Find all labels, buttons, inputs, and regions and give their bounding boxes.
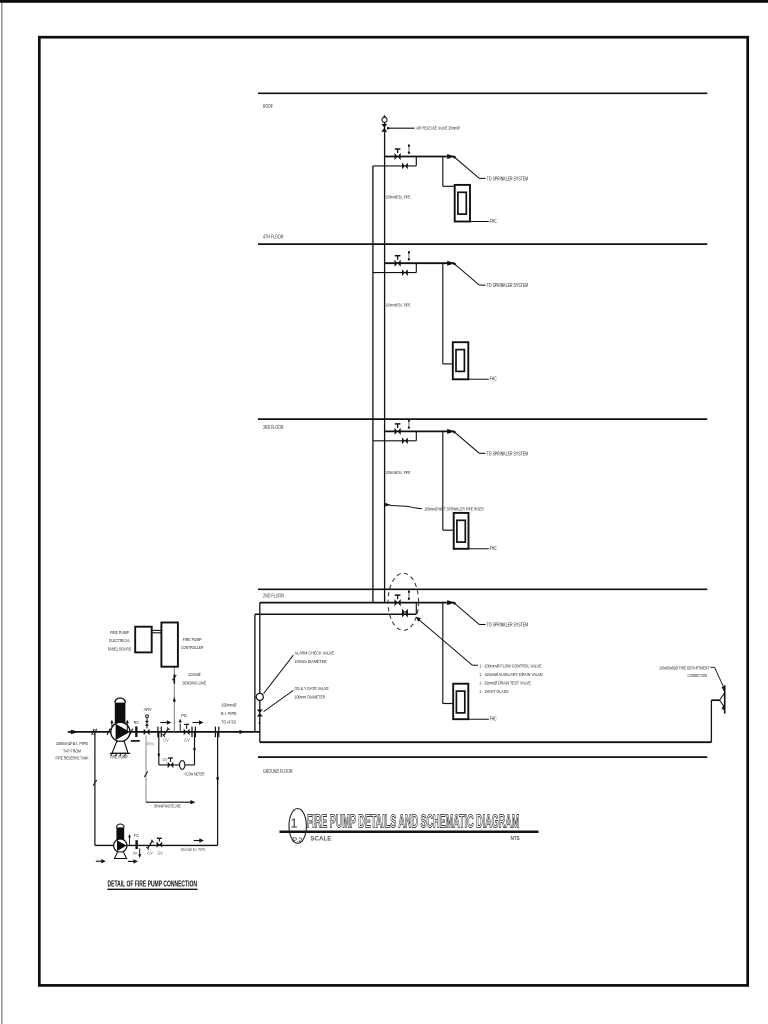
svg-text:CV: CV (147, 850, 153, 855)
svg-text:100mmØ B.I. PIPE: 100mmØ B.I. PIPE (386, 195, 411, 201)
gauge cock right of pump (126, 723, 128, 731)
wire: branch main pipe (385, 262, 455, 264)
wire: left drop from 2nd floor main (259, 603, 261, 743)
svg-text:4TH FLOOR: 4TH FLOOR (263, 234, 284, 240)
svg-text:1 - SIGHT GLASS: 1 - SIGHT GLASS (479, 689, 509, 695)
svg-text:TAP FROM: TAP FROM (63, 748, 81, 753)
svg-text:GV: GV (184, 737, 190, 742)
svg-text:1 - 32mmØ AUXILIARY DRAIN VALV: 1 - 32mmØ AUXILIARY DRAIN VALVE (479, 672, 543, 678)
wire: FHC feed drop (442, 263, 444, 364)
valve on air release stem (381, 124, 387, 128)
svg-text:CONTROLLER: CONTROLLER (181, 645, 204, 650)
svg-text:GV: GV (157, 850, 163, 855)
wire: FHC tag line (468, 718, 489, 720)
drawing number bubble (289, 809, 306, 844)
check valve CV on test line (148, 841, 153, 849)
svg-text:ELECTRICAL: ELECTRICAL (109, 638, 130, 643)
fire department siamese connection symbol (720, 693, 725, 700)
fire hose cabinet inner door (458, 192, 466, 214)
svg-text:CV: CV (163, 737, 169, 742)
union tick right of pump (130, 729, 133, 735)
auxiliary drain valve on bypass (402, 269, 405, 276)
wire: pump suction/discharge main (68, 731, 260, 733)
flow arrow at suction inlet (71, 730, 79, 735)
flange pair (191, 727, 193, 738)
OS&Y gate valve on riser drop (257, 710, 263, 714)
flow arrow on test line (194, 840, 200, 842)
OS&Y gate valve on branch (395, 428, 398, 435)
fire hose cabinet inner door (457, 520, 465, 542)
fire hose cabinet inner door (456, 350, 464, 372)
svg-text:DR: DR (133, 851, 138, 856)
svg-text:FIRE PUMP DETAILS AND SCHEMATI: FIRE PUMP DETAILS AND SCHEMATIC DIAGRAM (307, 811, 520, 832)
wire: bypass pipe (373, 440, 416, 442)
svg-text:150mmØ B.I. PIPE: 150mmØ B.I. PIPE (56, 741, 88, 746)
wire: panel to controller bus (152, 629, 162, 631)
svg-text:FHC: FHC (490, 219, 497, 225)
svg-text:FHC: FHC (490, 717, 497, 723)
OS&Y gate valve on branch (395, 260, 398, 267)
svg-text:DETAIL OF FIRE PUMP CONNECTION: DETAIL OF FIRE PUMP CONNECTION (108, 878, 198, 888)
fire hose cabinet inner door (456, 691, 464, 713)
svg-text:FHC: FHC (490, 546, 497, 552)
svg-text:RC: RC (134, 720, 140, 725)
wire: bypass connector (415, 157, 417, 166)
flow arrows under jockey pump (96, 860, 102, 862)
svg-text:1: 1 (290, 815, 297, 830)
auxiliary drain valve on bypass (402, 609, 405, 616)
svg-text:100mmØ B.I. PIPE: 100mmØ B.I. PIPE (386, 470, 411, 476)
test connection stub (408, 591, 410, 593)
wire: FHC tag line (469, 548, 489, 550)
wire: branch main pipe (385, 156, 455, 158)
svg-text:OS & Y GATE VALVE: OS & Y GATE VALVE (295, 686, 330, 692)
svg-text:SCALE: SCALE (310, 835, 331, 842)
wire: leader to sprinkler system (455, 264, 480, 285)
pipe union tick (92, 729, 95, 735)
svg-text:GROUND FLOOR: GROUND FLOOR (263, 769, 293, 775)
wire: left sprinkler riser pipe (372, 166, 374, 603)
wire: test line left drop (94, 732, 96, 846)
gate valve GV on main (184, 729, 187, 736)
wire: leader fire department connection (710, 666, 714, 668)
wire: leader to sprinkler system (455, 603, 480, 624)
flow arrow to sprinkler branch (447, 600, 455, 605)
union tick left of pump (107, 729, 110, 735)
wire: test line right rise (217, 732, 219, 846)
svg-text:P.2: P.2 (292, 837, 302, 844)
wire: bypass connector (415, 263, 417, 272)
test connection stub (408, 419, 410, 421)
wire: left drop from lower pipe (254, 614, 256, 732)
svg-text:TO SPRINKLER SYSTEM: TO SPRINKLER SYSTEM (487, 623, 528, 629)
scanned page top edge strip (0, 0, 768, 3)
floor line ROOF (258, 92, 707, 94)
svg-text:100mmØ B.I. PIPE: 100mmØ B.I. PIPE (386, 302, 411, 308)
wire: right 100mm wet riser pipe (384, 122, 386, 602)
svg-text:1 - 100mmØ FLOW CONTROL VALVE: 1 - 100mmØ FLOW CONTROL VALVE (479, 663, 542, 669)
wire: leader to valve list (416, 617, 421, 622)
wire: leader to sprinkler system (455, 432, 480, 453)
svg-text:100mm DIAMETER: 100mm DIAMETER (295, 694, 326, 700)
svg-text:PRV: PRV (147, 742, 155, 747)
svg-text:FC: FC (134, 833, 139, 838)
gate valve on flow meter loop (168, 762, 171, 768)
fire pump electrical panel board (135, 627, 152, 653)
svg-text:PG: PG (181, 713, 187, 718)
wire: branch main pipe (260, 602, 455, 604)
jockey pump base (114, 852, 126, 859)
detail bubble dashed ellipse (388, 573, 419, 630)
floor line 2ND FLOOR (258, 588, 707, 590)
wire: riser tag leader (385, 503, 390, 507)
wire: bypass pipe (373, 272, 416, 274)
flow control valve in detail bubble (402, 611, 405, 618)
wire: ground floor main pipe (260, 741, 712, 743)
floor line 4TH FLOOR (258, 243, 707, 245)
svg-text:FIRE RESERVE TANK: FIRE RESERVE TANK (56, 756, 90, 761)
svg-text:ALARM CHECK VALVE: ALARM CHECK VALVE (295, 651, 335, 657)
svg-text:3RD FLOOR: 3RD FLOOR (263, 425, 284, 431)
fire pump base pedestal (112, 741, 128, 753)
alarm check valve circle (256, 693, 263, 700)
wire: sensing line (173, 667, 175, 732)
svg-text:FIRE PUMP: FIRE PUMP (110, 630, 129, 635)
wire: leader alarm check valve (264, 655, 294, 693)
scanned page left edge line (1, 3, 3, 1024)
flexible coupling FC (135, 840, 138, 849)
wire: waste line drop (145, 735, 147, 802)
svg-text:TO SPRINKLER SYSTEM: TO SPRINKLER SYSTEM (487, 451, 528, 457)
jockey pump motor body (116, 827, 124, 842)
flow arrow to sprinkler branch (447, 429, 455, 434)
fire hose cabinet FHC box (453, 684, 468, 720)
wire: test header line (95, 844, 218, 846)
svg-text:100mmØ WET SPRINKLER PIPE RISE: 100mmØ WET SPRINKLER PIPE RISER (424, 507, 484, 513)
svg-text:ROOF: ROOF (263, 104, 273, 110)
wire: FHC feed drop (442, 431, 444, 530)
main gate valve after pump (144, 729, 147, 736)
air release valve circle (382, 117, 387, 122)
auxiliary drain valve on bypass (402, 438, 405, 445)
flow arrows on discharge (160, 722, 167, 724)
wire: waste line horizontal (146, 801, 191, 803)
gauge cock on jockey pump (129, 837, 131, 845)
wire: leader to sprinkler system (455, 157, 480, 178)
wire: leader os&y valve (264, 690, 294, 711)
svg-text:TO AFSS: TO AFSS (221, 720, 236, 725)
svg-text:ARV: ARV (144, 707, 152, 712)
svg-text:50mmØ B.I. PIPE: 50mmØ B.I. PIPE (181, 847, 206, 852)
svg-text:50mmØ WASTE LINE: 50mmØ WASTE LINE (154, 804, 180, 809)
fire hose cabinet FHC box (454, 513, 469, 549)
wire: FHC tag line (470, 221, 489, 223)
svg-text:CONNECTION: CONNECTION (688, 673, 708, 679)
fire pump casing (111, 722, 130, 741)
check valve CV on main (164, 728, 169, 735)
flow arrow to AFSS (234, 731, 240, 733)
flow arrow to sprinkler branch (447, 261, 455, 266)
svg-text:150mmØ: 150mmØ (221, 702, 236, 707)
svg-text:B.I. PIPE: B.I. PIPE (221, 711, 237, 716)
wire: 2nd floor lower pipe (255, 613, 416, 615)
floor line 3RD FLOOR (258, 418, 707, 420)
rubber check valve RC (135, 726, 137, 737)
svg-text:FIRE PUMP: FIRE PUMP (183, 637, 202, 642)
wire: FHC tag line (468, 378, 489, 380)
auxiliary drain valve on bypass (402, 163, 405, 170)
wire: flow meter loop (158, 732, 160, 765)
svg-text:2ND FLOOR: 2ND FLOOR (263, 594, 284, 600)
wire: bypass pipe (373, 165, 416, 167)
svg-text:PANEL BOARD: PANEL BOARD (108, 646, 132, 651)
gate valve GV on test line (157, 841, 160, 847)
jockey pump casing (114, 839, 127, 852)
pressure gauge PG (179, 724, 181, 732)
svg-text:AIR RELEASE VALVE 25mmØ: AIR RELEASE VALVE 25mmØ (416, 125, 460, 131)
svg-text:100x65x65Ø FIRE DEPARTMENT: 100x65x65Ø FIRE DEPARTMENT (659, 665, 709, 671)
svg-text:12mmØ: 12mmØ (188, 672, 201, 677)
wire: FHC feed drop (442, 603, 444, 704)
gauge cock left of pump (111, 723, 113, 731)
flange pair at test tee (214, 727, 216, 738)
test connection stub (408, 145, 410, 147)
wire: air release valve leader (387, 127, 415, 129)
svg-text:TO SPRINKLER SYSTEM: TO SPRINKLER SYSTEM (487, 283, 528, 289)
OS&Y gate valve on branch (395, 599, 398, 606)
wire: branch main pipe (385, 430, 455, 432)
test connection stub (408, 251, 410, 253)
svg-text:FLOW METER: FLOW METER (185, 772, 205, 777)
svg-text:NTS: NTS (511, 836, 520, 842)
flange pair (157, 727, 159, 738)
svg-text:FHC: FHC (490, 377, 497, 383)
floor line GROUND FLOOR (258, 756, 707, 758)
svg-text:100mm DIAMETER: 100mm DIAMETER (295, 659, 328, 665)
fire hose cabinet FHC box (453, 342, 469, 379)
wire: FHC feed drop (442, 157, 444, 187)
svg-text:1 - 32mmØ DRAIN TEST VALVE: 1 - 32mmØ DRAIN TEST VALVE (479, 681, 531, 687)
flow arrow to sprinkler branch (447, 154, 455, 159)
svg-text:GV: GV (162, 757, 168, 762)
fire hose cabinet FHC box (455, 185, 470, 222)
flow meter (180, 761, 185, 770)
svg-text:SENSING LINE: SENSING LINE (182, 680, 206, 685)
svg-text:FIRE PUMP: FIRE PUMP (110, 755, 128, 760)
wire: bypass connector 2nd floor (415, 603, 417, 615)
OS&Y gate valve on branch (395, 153, 398, 160)
fire pump controller box (161, 623, 178, 667)
title block rule (280, 830, 539, 833)
svg-text:TO SPRINKLER SYSTEM: TO SPRINKLER SYSTEM (487, 177, 528, 183)
wire: fire department connection riser (710, 700, 712, 742)
fire pump motor body (115, 702, 126, 724)
wire: bypass connector (415, 431, 417, 440)
